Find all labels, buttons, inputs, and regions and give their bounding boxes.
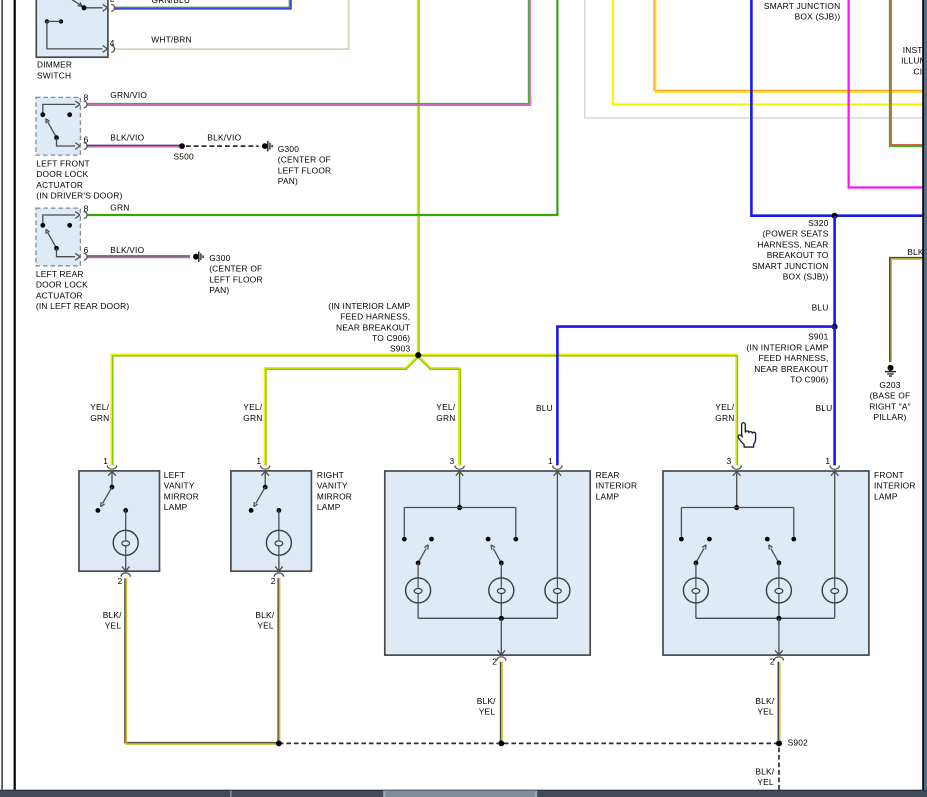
svg-text:YEL: YEL	[257, 621, 274, 631]
pin 4 of dimmer switch	[103, 46, 108, 53]
svg-text:(POWER SEATS: (POWER SEATS	[763, 229, 829, 239]
wire BLK/YEL dashed below S902	[778, 748, 780, 790]
wire BLU from S901 to front interior lamp pin 1	[833, 327, 836, 466]
svg-text:YEL: YEL	[479, 707, 496, 717]
bulb 3 of front interior lamp	[834, 473, 836, 578]
svg-text:GRN: GRN	[90, 413, 109, 423]
bulb 3 of rear interior lamp	[556, 473, 558, 578]
pin 6 of left front door lock actuator	[75, 143, 80, 150]
component front interior lamp	[663, 471, 869, 655]
svg-text:G300: G300	[209, 253, 230, 263]
wire MAG	[849, 0, 923, 188]
svg-text:(IN LEFT REAR DOOR): (IN LEFT REAR DOOR)	[36, 301, 129, 311]
svg-text:LEFT FLOOR: LEFT FLOOR	[278, 165, 332, 175]
splice S320	[832, 213, 838, 219]
svg-text:BREAKOUT TO: BREAKOUT TO	[767, 250, 829, 260]
bottom bus of rear interior lamp	[417, 603, 419, 618]
wire GRN from left rear door lock actuator pin 8	[87, 0, 557, 215]
svg-text:SWITCH: SWITCH	[37, 70, 71, 80]
wire dashed ground bus to S902	[279, 742, 779, 744]
svg-text:YEL/: YEL/	[243, 402, 262, 412]
switch 2 of front interior lamp	[765, 537, 770, 542]
svg-text:HARNESS, NEAR: HARNESS, NEAR	[757, 239, 828, 249]
svg-text:DOOR LOCK: DOOR LOCK	[36, 280, 88, 290]
pin 3 connector of front interior lamp	[732, 466, 741, 470]
svg-text:BOX (SJB)): BOX (SJB))	[795, 12, 841, 22]
svg-text:SMART JUNCTION: SMART JUNCTION	[752, 261, 828, 271]
pin 1 connector of front interior lamp	[830, 466, 839, 470]
splice S903	[415, 352, 421, 358]
svg-text:S902: S902	[788, 737, 809, 747]
horizontal scrollbar	[0, 790, 927, 797]
svg-text:4: 4	[110, 38, 115, 48]
wire YEL/GRN right branch to front interior lamp pin 3	[418, 354, 736, 465]
svg-text:DIMMER: DIMMER	[37, 60, 72, 70]
internal bus of rear interior lamp	[404, 507, 516, 509]
svg-text:INTERIOR: INTERIOR	[874, 481, 916, 491]
wire	[585, 0, 923, 118]
page border line	[1, 0, 3, 790]
svg-text:8: 8	[84, 203, 89, 213]
svg-text:3: 3	[727, 456, 732, 466]
svg-text:BLK/: BLK/	[755, 696, 774, 706]
wire BLK/YEL from left vanity lamp pin 2	[125, 578, 278, 742]
wire GRN/BLU from dimmer switch pin 2	[115, 0, 290, 7]
wire YEL/GRN left branch to left vanity lamp pin 1	[111, 354, 418, 465]
wire BLK/VIO dashed from S500 to G300	[186, 145, 259, 147]
svg-text:1: 1	[825, 456, 830, 466]
wire YEL from SJB	[613, 0, 923, 105]
svg-text:SMART JUNCTION: SMART JUNCTION	[764, 1, 840, 11]
junction node	[498, 741, 504, 747]
svg-text:LAMP: LAMP	[317, 502, 341, 512]
wire BLU from SJB to S320	[751, 0, 923, 216]
svg-text:S320: S320	[808, 218, 829, 228]
svg-text:GRN: GRN	[243, 413, 262, 423]
svg-text:MIRROR: MIRROR	[164, 491, 199, 501]
bulb 2 of rear interior lamp	[500, 563, 502, 578]
svg-text:INTERIOR: INTERIOR	[596, 481, 638, 491]
svg-text:YEL: YEL	[105, 621, 122, 631]
wire YEL/GRN lower-left branch to right vanity lamp pin 1	[264, 356, 417, 465]
svg-text:LAMP: LAMP	[874, 491, 898, 501]
component left front door lock actuator	[36, 97, 81, 155]
wire GRN/VIO from left front door lock actuator pin 8	[87, 0, 528, 104]
splice S901	[832, 324, 838, 330]
svg-text:FRONT: FRONT	[874, 470, 904, 480]
page border line	[14, 0, 16, 790]
svg-text:LEFT: LEFT	[164, 470, 185, 480]
svg-text:(BASE OF: (BASE OF	[870, 391, 911, 401]
svg-text:2: 2	[271, 576, 276, 586]
svg-text:S500: S500	[174, 152, 195, 162]
svg-text:LAMP: LAMP	[164, 502, 188, 512]
svg-text:G300: G300	[278, 144, 299, 154]
svg-text:TO C906): TO C906)	[372, 333, 410, 343]
svg-text:2: 2	[110, 0, 115, 3]
svg-text:NEAR BREAKOUT: NEAR BREAKOUT	[336, 322, 410, 332]
svg-text:3: 3	[450, 456, 455, 466]
svg-text:6: 6	[84, 245, 89, 255]
svg-text:GRN: GRN	[110, 202, 129, 212]
ground G300	[262, 143, 268, 149]
component right vanity mirror lamp	[231, 471, 312, 571]
svg-text:TO C906): TO C906)	[790, 374, 828, 384]
wire BLK/YEL from right vanity lamp pin 2	[277, 578, 279, 742]
svg-text:ACTUATOR: ACTUATOR	[36, 180, 83, 190]
splice S902	[776, 740, 782, 746]
wire YEL/GRN lower-right branch to rear interior lamp pin 3	[419, 356, 459, 465]
svg-text:1: 1	[548, 456, 553, 466]
svg-text:BLK/VIO: BLK/VIO	[110, 245, 144, 255]
switch 2 of rear interior lamp	[486, 537, 491, 542]
svg-text:2: 2	[492, 657, 497, 667]
pin 2 connector of rear interior lamp	[500, 618, 502, 654]
svg-text:YEL/: YEL/	[436, 402, 455, 412]
svg-text:1: 1	[256, 456, 261, 466]
pin 2 connector of front interior lamp	[778, 618, 780, 654]
svg-text:YEL: YEL	[757, 707, 774, 717]
svg-text:YEL/: YEL/	[90, 402, 109, 412]
component left rear door lock actuator	[36, 208, 81, 266]
svg-text:(IN DRIVER'S DOOR): (IN DRIVER'S DOOR)	[36, 191, 122, 201]
svg-text:VANITY: VANITY	[164, 481, 195, 491]
component rear interior lamp	[385, 471, 590, 655]
ground G300 (left rear)	[193, 254, 199, 260]
vertical scrollbar	[922, 0, 924, 797]
svg-text:S901: S901	[808, 332, 829, 342]
wire YEL/GRN main vertical to S903	[416, 0, 418, 354]
svg-text:PILLAR): PILLAR)	[873, 412, 906, 422]
svg-text:LEFT FLOOR: LEFT FLOOR	[209, 274, 263, 284]
svg-text:BLK/: BLK/	[255, 610, 274, 620]
svg-text:NEAR BREAKOUT: NEAR BREAKOUT	[754, 364, 828, 374]
svg-text:REAR: REAR	[596, 470, 620, 480]
svg-text:(IN INTERIOR LAMP: (IN INTERIOR LAMP	[746, 342, 828, 352]
svg-text:2: 2	[770, 657, 775, 667]
svg-text:6: 6	[84, 134, 89, 144]
bottom bus of front interior lamp	[695, 603, 697, 618]
svg-text:1: 1	[103, 456, 108, 466]
pin 6 of left rear door lock actuator	[75, 253, 80, 260]
svg-text:BLK/VIO: BLK/VIO	[110, 132, 144, 142]
svg-text:PAN): PAN)	[209, 285, 229, 295]
switch 1 of rear interior lamp	[402, 537, 407, 542]
svg-text:S903: S903	[390, 344, 411, 354]
svg-text:BLU: BLU	[536, 403, 553, 413]
bulb 2 of front interior lamp	[778, 563, 780, 578]
junction node in rear interior lamp	[457, 505, 462, 510]
svg-text:BLU: BLU	[816, 403, 833, 413]
wire WHT/BRN from dimmer switch pin 4	[115, 0, 349, 49]
svg-text:RIGHT: RIGHT	[317, 470, 344, 480]
pin 3 connector of rear interior lamp	[455, 466, 464, 470]
component dimmer switch	[36, 0, 108, 57]
svg-text:BLK/VIO: BLK/VIO	[207, 132, 241, 142]
svg-text:LEFT FRONT: LEFT FRONT	[36, 158, 90, 168]
svg-text:YEL: YEL	[757, 777, 774, 787]
splice S500	[179, 143, 185, 149]
internal bus of front interior lamp	[681, 507, 793, 509]
svg-text:BOX (SJB)): BOX (SJB))	[783, 271, 829, 281]
svg-text:BLK/: BLK/	[755, 766, 774, 776]
wire BLK/YEL from front interior lamp pin 2	[777, 662, 779, 741]
ground G203	[888, 365, 894, 371]
svg-text:GRN: GRN	[715, 413, 734, 423]
switch 1 of front interior lamp	[679, 537, 684, 542]
pin 8 of left rear door lock actuator	[75, 212, 80, 219]
wire BLK/VIO from left rear door lock actuator pin 6 to G300	[87, 255, 190, 257]
svg-text:FEED HARNESS,: FEED HARNESS,	[340, 312, 410, 322]
svg-text:BLK/: BLK/	[103, 610, 122, 620]
svg-text:YEL/: YEL/	[715, 402, 734, 412]
svg-text:WHT/BRN: WHT/BRN	[151, 34, 191, 44]
bulb 1 of rear interior lamp	[417, 563, 419, 578]
svg-text:PAN): PAN)	[278, 176, 298, 186]
mouse cursor	[738, 423, 755, 447]
wire BLK/VIO from left front door lock actuator pin 6 to S500	[87, 144, 182, 146]
svg-text:2: 2	[118, 576, 123, 586]
svg-text:(CENTER OF: (CENTER OF	[209, 264, 262, 274]
svg-text:8: 8	[84, 93, 89, 103]
svg-text:BLU: BLU	[812, 303, 829, 313]
pin 2 of dimmer switch	[103, 4, 108, 11]
wire GRN/RED	[891, 0, 923, 145]
svg-text:G203: G203	[879, 380, 900, 390]
pin 1 connector of rear interior lamp	[553, 466, 562, 470]
svg-text:BLK/: BLK/	[477, 696, 496, 706]
pin 8 of left front door lock actuator	[75, 101, 80, 108]
svg-text:LAMP: LAMP	[596, 491, 620, 501]
svg-text:(IN INTERIOR LAMP: (IN INTERIOR LAMP	[328, 301, 410, 311]
svg-text:LEFT REAR: LEFT REAR	[36, 269, 84, 279]
component left vanity mirror lamp	[79, 471, 160, 571]
svg-text:GRN/VIO: GRN/VIO	[110, 90, 147, 100]
wire BLU from S320 to S901	[833, 216, 836, 327]
bulb 1 of front interior lamp	[695, 563, 697, 578]
svg-text:MIRROR: MIRROR	[317, 491, 352, 501]
svg-text:DOOR LOCK: DOOR LOCK	[36, 169, 88, 179]
svg-text:GRN: GRN	[436, 413, 455, 423]
wire BLU from S901 to rear interior lamp pin 1	[557, 327, 834, 466]
svg-text:FEED HARNESS,: FEED HARNESS,	[758, 353, 828, 363]
svg-text:RIGHT "A": RIGHT "A"	[869, 401, 911, 411]
svg-text:VANITY: VANITY	[317, 481, 348, 491]
junction node	[276, 741, 282, 747]
wire BLK/YEL from rear interior lamp pin 2	[500, 662, 502, 743]
junction node in front interior lamp	[734, 505, 739, 510]
wire BLK/YEL to G203	[890, 258, 923, 363]
svg-text:GRN/BLU: GRN/BLU	[152, 0, 191, 5]
svg-text:ACTUATOR: ACTUATOR	[36, 290, 83, 300]
svg-text:(CENTER OF: (CENTER OF	[278, 155, 331, 165]
wire ORG/YEL from SJB	[654, 0, 923, 91]
